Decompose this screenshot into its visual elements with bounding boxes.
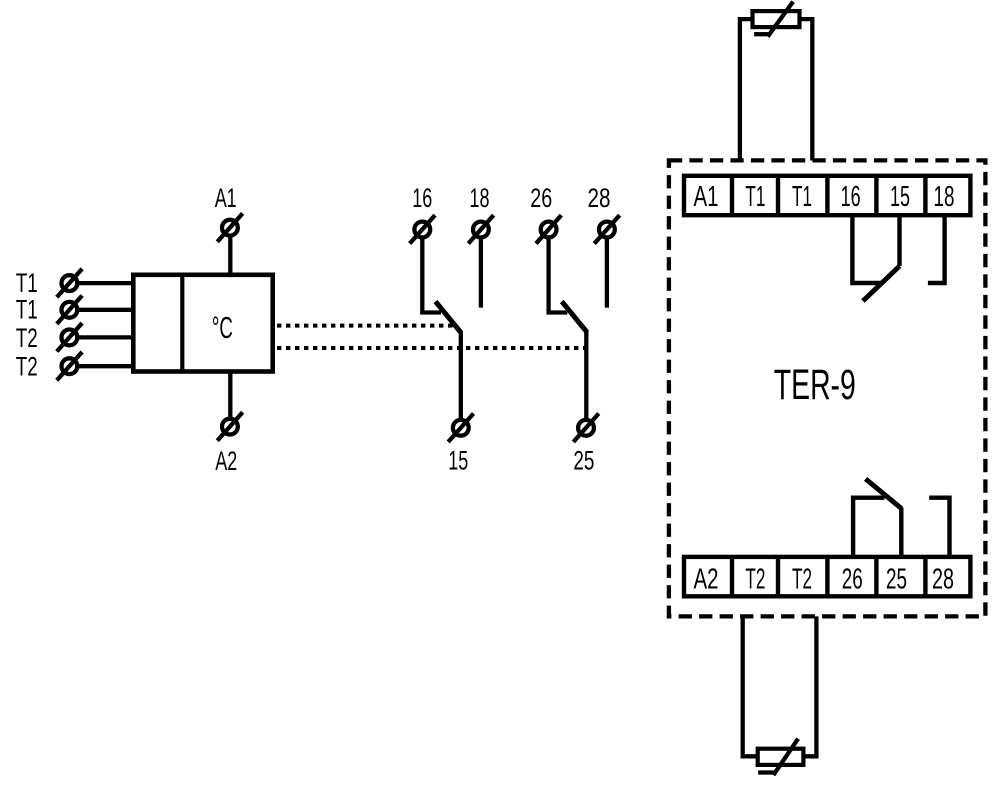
terminal T2 screw 1	[57, 323, 82, 351]
thermistor RT1 body	[753, 11, 800, 27]
terminal A2 screw	[217, 412, 242, 440]
internal contact 25 wire	[899, 508, 903, 556]
internal switch arm (25-26)	[866, 479, 902, 509]
internal contact 28 wire	[929, 498, 949, 556]
terminal 16 screw	[410, 215, 435, 243]
terminal T1 screw 1	[57, 269, 82, 297]
wire 15 common	[459, 331, 463, 419]
svg-text:18: 18	[934, 181, 955, 213]
svg-text:TER-9: TER-9	[774, 361, 856, 409]
thermistor RT1 strike	[754, 2, 793, 37]
svg-text:16: 16	[841, 181, 861, 213]
svg-text:A2: A2	[215, 446, 237, 476]
terminal T2 screw 2	[57, 352, 82, 380]
terminal 28 screw	[594, 215, 619, 243]
svg-text:T2: T2	[792, 563, 812, 595]
internal contact 18 wire	[928, 217, 945, 283]
wire bottom sensor left	[743, 616, 758, 756]
svg-text:A1: A1	[694, 181, 719, 213]
wire T2-1 to block	[75, 335, 133, 339]
thermistor RT2 strike	[758, 739, 798, 775]
svg-text:26: 26	[842, 563, 863, 595]
internal contact 26 wire	[853, 498, 884, 556]
wire A1 to block	[228, 237, 232, 275]
dotted control link to K2	[277, 346, 585, 350]
svg-text:T1: T1	[16, 295, 38, 325]
terminal 25 screw	[573, 414, 598, 442]
dotted control link to K1	[277, 324, 453, 328]
svg-text:A1: A1	[215, 183, 237, 213]
terminal A1 screw	[217, 213, 242, 241]
wire 16 fixed contact	[422, 239, 441, 313]
internal contact 15 wire	[897, 217, 901, 266]
svg-text:T1: T1	[745, 181, 765, 213]
bottom terminal strip	[684, 557, 970, 596]
wire 28 fixed contact	[605, 239, 609, 308]
wire 26 fixed contact	[549, 239, 568, 313]
wire top sensor left	[740, 19, 753, 160]
svg-text:18: 18	[470, 183, 490, 213]
svg-text:A2: A2	[694, 563, 719, 595]
svg-text:°C: °C	[212, 310, 233, 345]
svg-text:26: 26	[530, 183, 552, 213]
device outline TER-9 (dashed)	[669, 160, 986, 616]
internal switch arm (15-16)	[863, 266, 900, 301]
svg-text:T2: T2	[16, 323, 38, 353]
terminal 15 screw	[448, 414, 473, 442]
svg-text:T2: T2	[16, 352, 38, 382]
svg-text:25: 25	[573, 446, 594, 476]
wire T2-2 to block	[75, 364, 133, 368]
svg-text:T1: T1	[792, 181, 812, 213]
thermistor RT2 body	[758, 749, 804, 765]
svg-text:16: 16	[412, 183, 432, 213]
svg-text:T1: T1	[16, 268, 38, 298]
svg-text:15: 15	[890, 181, 910, 213]
top terminal strip	[684, 176, 970, 215]
terminal 26 screw	[536, 215, 561, 243]
wire 25 common	[584, 331, 588, 419]
switch arm K2 (25-26)	[562, 302, 587, 333]
wire A2 from block	[228, 372, 232, 418]
wire top sensor right	[800, 19, 813, 160]
switch arm K1 (15-16)	[436, 302, 461, 333]
svg-text:28: 28	[932, 563, 954, 595]
internal contact 16 wire	[852, 217, 882, 283]
wire bottom sensor right	[803, 616, 816, 756]
wire T1-2 to block	[75, 308, 133, 312]
terminal T1 screw 2	[57, 296, 82, 324]
thermostat block U1	[133, 275, 272, 372]
svg-text:T2: T2	[745, 563, 765, 595]
wire T1-1 to block	[75, 281, 133, 285]
terminal 18 screw	[468, 215, 493, 243]
svg-text:28: 28	[588, 183, 611, 213]
svg-text:25: 25	[886, 563, 907, 595]
svg-text:15: 15	[448, 446, 468, 476]
wire 18 fixed contact	[479, 239, 483, 308]
